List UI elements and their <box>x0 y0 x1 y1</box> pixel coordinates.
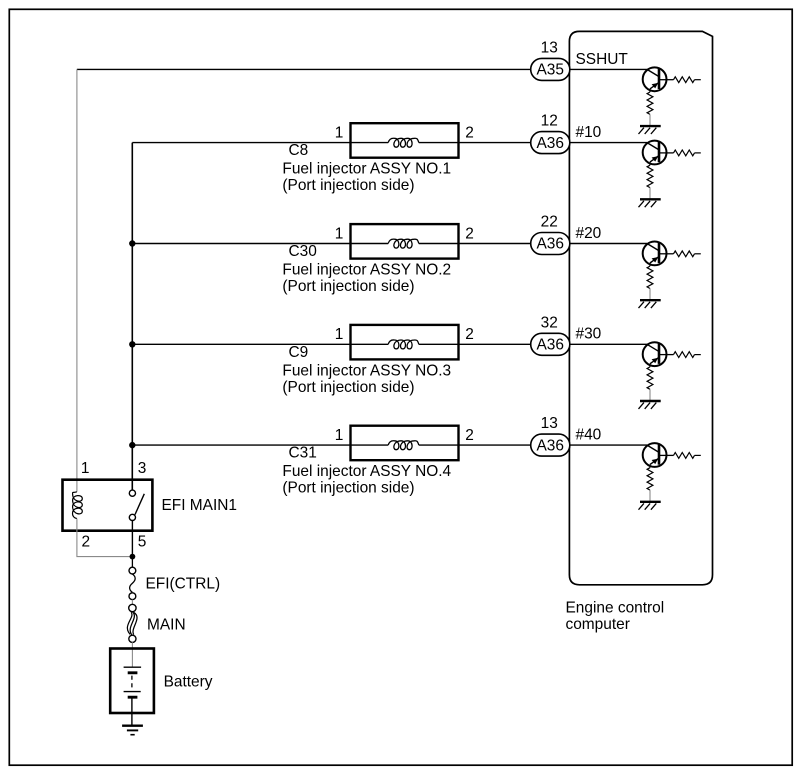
emitter wire of Q4 <box>649 364 651 367</box>
svg-text:1: 1 <box>335 124 344 141</box>
transistor Q4 (driver, inside ECU) <box>643 342 667 366</box>
base resistor of Q4 <box>674 352 695 358</box>
wire: injector C31 pin 2 to connector oval <box>419 444 531 446</box>
svg-text:1: 1 <box>335 326 344 343</box>
svg-text:(Port injection side): (Port injection side) <box>282 480 414 497</box>
base resistor of Q2 <box>674 150 695 156</box>
engine control computer box U1 <box>569 31 712 584</box>
emitter resistor of Q2 <box>647 165 653 187</box>
junction node on trunk (row 5) <box>129 442 135 448</box>
wire: ECU pin row 4 to transistor Q4 <box>570 343 647 345</box>
injector coil (solenoid) of C9 <box>388 340 419 349</box>
svg-text:C30: C30 <box>289 243 317 260</box>
emitter resistor of Q5 <box>647 468 653 490</box>
emitter resistor of Q1 <box>647 92 653 114</box>
emitter wire of Q2 <box>649 162 651 165</box>
svg-text:2: 2 <box>465 326 474 343</box>
svg-text:(Port injection side): (Port injection side) <box>282 278 414 295</box>
svg-text:12: 12 <box>541 113 558 130</box>
svg-text:1: 1 <box>81 460 90 477</box>
base wire of Q3 <box>660 253 674 255</box>
svg-text:A35: A35 <box>536 62 563 79</box>
injector coil (solenoid) of C8 <box>388 138 419 147</box>
base wire of Q4 <box>660 354 674 356</box>
stub wire right of base resistor Q1 <box>695 79 701 81</box>
svg-text:Fuel injector ASSY NO.3: Fuel injector ASSY NO.3 <box>282 362 451 379</box>
base wire of Q5 <box>660 454 674 456</box>
svg-text:32: 32 <box>541 314 558 331</box>
wire: ECU pin row 3 to transistor Q3 <box>570 243 647 245</box>
svg-text:1: 1 <box>335 225 344 242</box>
stub wire right of base resistor Q3 <box>695 253 701 255</box>
wire to ground of Q1 <box>649 114 651 125</box>
wire: relay pin 5 down to junction <box>131 521 133 557</box>
svg-text:3: 3 <box>138 460 147 477</box>
wire to ground of Q5 <box>649 490 651 501</box>
connector oval A36 (row 3) <box>531 233 570 255</box>
wire to ground of Q4 <box>649 389 651 400</box>
svg-text:1: 1 <box>335 427 344 444</box>
relay switch blade (open) <box>135 494 144 515</box>
base wire of Q1 <box>660 79 674 81</box>
connector oval A35 (row 1) <box>531 58 570 80</box>
wire: trunk from row 2 down to relay pin 3 <box>131 143 133 491</box>
fuel injector box C9 <box>351 325 459 360</box>
wire: injector C9 pin 2 to connector oval <box>419 343 531 345</box>
wire: fusible link to battery <box>131 642 133 667</box>
wire: trunk to injector C30 pin 1 <box>132 243 388 245</box>
chassis ground of Q5 <box>639 502 661 510</box>
transistor Q2 (driver, inside ECU) <box>643 141 667 165</box>
svg-text:Battery: Battery <box>164 674 213 691</box>
wire: A35 to left side (SSHUT row) <box>77 68 531 70</box>
transistor Q3 (driver, inside ECU) <box>643 242 667 266</box>
relay coil (between pins 1 and 2) <box>73 492 83 519</box>
wire: injector C8 pin 2 to connector oval <box>419 142 531 144</box>
wire: ECU pin row 1 to transistor Q1 <box>570 68 647 70</box>
base resistor of Q5 <box>674 453 695 459</box>
wire: left vertical down to relay pin 1 <box>76 69 78 491</box>
connector oval A36 (row 2) <box>531 132 570 154</box>
stub wire right of base resistor Q4 <box>695 354 701 356</box>
connector oval A36 (row 5) <box>531 434 570 456</box>
junction node below relay <box>130 554 136 560</box>
base wire of Q2 <box>660 152 674 154</box>
relay switch contact: pin 3 circle <box>129 490 135 496</box>
svg-text:EFI MAIN1: EFI MAIN1 <box>162 497 237 514</box>
svg-text:#30: #30 <box>576 326 602 343</box>
svg-text:C31: C31 <box>289 445 317 462</box>
stub wire right of base resistor Q5 <box>695 454 701 456</box>
svg-text:#40: #40 <box>576 427 602 444</box>
svg-text:2: 2 <box>465 225 474 242</box>
svg-text:13: 13 <box>541 415 558 432</box>
relay EFI MAIN1 box <box>63 480 153 531</box>
svg-text:Engine control: Engine control <box>566 599 665 616</box>
wire: battery negative to earth ground <box>131 697 133 724</box>
emitter wire of Q5 <box>649 465 651 468</box>
injector coil (solenoid) of C31 <box>388 441 419 450</box>
emitter wire of Q3 <box>649 263 651 266</box>
svg-text:(Port injection side): (Port injection side) <box>282 177 414 194</box>
chassis ground of Q1 <box>639 126 661 134</box>
svg-text:A36: A36 <box>536 437 563 454</box>
emitter resistor of Q4 <box>647 367 653 389</box>
wire: junction to fuse <box>131 557 133 568</box>
svg-text:#10: #10 <box>576 124 602 141</box>
fusible link MAIN <box>127 604 137 642</box>
battery cell plates <box>124 667 142 697</box>
fuse EFI(CTRL) <box>129 567 136 599</box>
stub wire right of base resistor Q2 <box>695 152 701 154</box>
transistor Q1 (driver, inside ECU) <box>643 67 667 91</box>
svg-text:MAIN: MAIN <box>147 617 186 634</box>
svg-text:A36: A36 <box>536 337 563 354</box>
svg-text:Fuel injector ASSY NO.4: Fuel injector ASSY NO.4 <box>282 463 451 480</box>
junction node on trunk (row 4) <box>129 341 135 347</box>
connector oval A36 (row 4) <box>531 333 570 355</box>
relay switch contact: pin 5 circle <box>129 514 135 520</box>
wire: trunk to injector C31 pin 1 <box>132 444 388 446</box>
wire: trunk to injector C9 pin 1 <box>132 343 388 345</box>
svg-text:2: 2 <box>465 124 474 141</box>
svg-text:(Port injection side): (Port injection side) <box>282 379 414 396</box>
junction node on trunk (row 3) <box>129 240 135 246</box>
svg-text:A36: A36 <box>536 236 563 253</box>
svg-text:C8: C8 <box>289 142 309 159</box>
wire: fuse to fusible link <box>131 600 133 605</box>
svg-text:SSHUT: SSHUT <box>576 51 629 68</box>
fuel injector box C31 <box>351 426 459 461</box>
svg-text:EFI(CTRL): EFI(CTRL) <box>146 576 221 593</box>
base resistor of Q3 <box>674 251 695 257</box>
wire: injector C30 pin 2 to connector oval <box>419 243 531 245</box>
svg-text:5: 5 <box>138 534 147 551</box>
svg-text:22: 22 <box>541 214 558 231</box>
wire: ECU pin row 5 to transistor Q5 <box>570 444 647 446</box>
fuel injector box C30 <box>351 224 459 259</box>
wire to ground of Q3 <box>649 289 651 300</box>
svg-text:13: 13 <box>541 40 558 57</box>
wire to ground of Q2 <box>649 188 651 199</box>
svg-text:Fuel injector ASSY NO.2: Fuel injector ASSY NO.2 <box>282 262 451 279</box>
svg-text:A36: A36 <box>536 135 563 152</box>
svg-text:computer: computer <box>566 616 630 633</box>
svg-text:Fuel injector ASSY NO.1: Fuel injector ASSY NO.1 <box>282 161 451 178</box>
svg-text:#20: #20 <box>576 225 602 242</box>
svg-text:2: 2 <box>82 534 91 551</box>
fuel injector box C8 <box>351 123 459 158</box>
base resistor of Q1 <box>674 77 695 83</box>
chassis ground of Q3 <box>639 300 661 308</box>
earth ground below battery <box>122 726 143 735</box>
battery box <box>110 649 154 714</box>
wire: ECU pin row 2 to transistor Q2 <box>570 142 647 144</box>
svg-text:C9: C9 <box>289 344 309 361</box>
wire: relay pin 2 down and right to junction <box>77 519 130 557</box>
emitter resistor of Q3 <box>647 266 653 288</box>
wire: trunk to injector C8 pin 1 <box>132 142 388 144</box>
injector coil (solenoid) of C30 <box>388 239 419 248</box>
chassis ground of Q2 <box>639 199 661 207</box>
transistor Q5 (driver, inside ECU) <box>643 443 667 467</box>
chassis ground of Q4 <box>639 401 661 409</box>
svg-text:2: 2 <box>465 427 474 444</box>
emitter wire of Q1 <box>649 89 651 92</box>
